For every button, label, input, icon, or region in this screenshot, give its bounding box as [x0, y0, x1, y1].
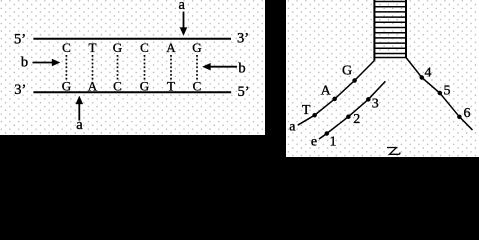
svg-text:C: C	[140, 40, 149, 55]
dot T	[313, 113, 317, 117]
left panel background	[0, 0, 265, 135]
arrow a bottom (up)	[76, 96, 83, 121]
ladder rungs	[374, 2, 406, 58]
svg-text:A: A	[88, 79, 98, 94]
svg-text:e: e	[311, 134, 317, 149]
svg-text:T: T	[167, 79, 175, 94]
dot 5	[438, 91, 442, 95]
dot A	[333, 97, 337, 101]
dot 4	[420, 75, 424, 79]
svg-text:3’: 3’	[14, 82, 26, 98]
bottom strand line	[33, 91, 231, 93]
ladder right rail	[405, 0, 407, 58]
dot 3	[366, 97, 370, 101]
caption 乙 (figure B)	[387, 148, 400, 155]
svg-text:A: A	[166, 40, 176, 55]
svg-text:b: b	[21, 55, 28, 71]
right template strand	[406, 58, 473, 131]
svg-text:2: 2	[353, 112, 360, 127]
hydrogen bond 1	[65, 55, 67, 81]
hydrogen bond 2	[92, 55, 94, 81]
svg-text:G: G	[140, 79, 149, 94]
arrow b left (right-pointing)	[33, 59, 61, 66]
svg-text:1: 1	[330, 134, 337, 149]
svg-text:a: a	[289, 119, 296, 134]
svg-text:a: a	[178, 0, 185, 13]
svg-text:a: a	[76, 117, 83, 133]
svg-text:T: T	[89, 40, 97, 55]
svg-text:5’: 5’	[238, 84, 250, 100]
arrow a top (down)	[180, 12, 187, 36]
svg-text:G: G	[113, 40, 122, 55]
dot G	[353, 78, 357, 82]
right panel background	[286, 0, 479, 157]
hydrogen bond 5	[170, 55, 172, 81]
svg-text:A: A	[321, 83, 332, 98]
dot 2	[346, 115, 350, 119]
hydrogen bond 4	[144, 55, 146, 81]
top strand line	[33, 38, 231, 40]
svg-text:4: 4	[425, 66, 432, 81]
svg-text:G: G	[62, 79, 71, 94]
svg-text:3’: 3’	[237, 30, 249, 46]
svg-text:T: T	[302, 103, 311, 118]
hydrogen bond 6	[196, 55, 198, 81]
hydrogen bond 3	[117, 55, 119, 81]
dot 1	[325, 131, 329, 135]
left template strand	[298, 61, 375, 126]
svg-text:G: G	[192, 40, 201, 55]
svg-text:5’: 5’	[14, 31, 26, 47]
svg-text:5: 5	[444, 84, 451, 99]
svg-text:C: C	[113, 79, 122, 94]
svg-text:C: C	[62, 40, 71, 55]
arrow b right (left-pointing)	[203, 63, 238, 70]
dot 6	[457, 115, 461, 119]
svg-text:C: C	[193, 79, 202, 94]
new strand	[319, 81, 385, 139]
svg-text:G: G	[342, 64, 352, 79]
svg-text:b: b	[238, 60, 245, 76]
ladder left rail	[373, 0, 375, 61]
svg-text:6: 6	[464, 106, 471, 121]
svg-text:3: 3	[372, 96, 379, 111]
